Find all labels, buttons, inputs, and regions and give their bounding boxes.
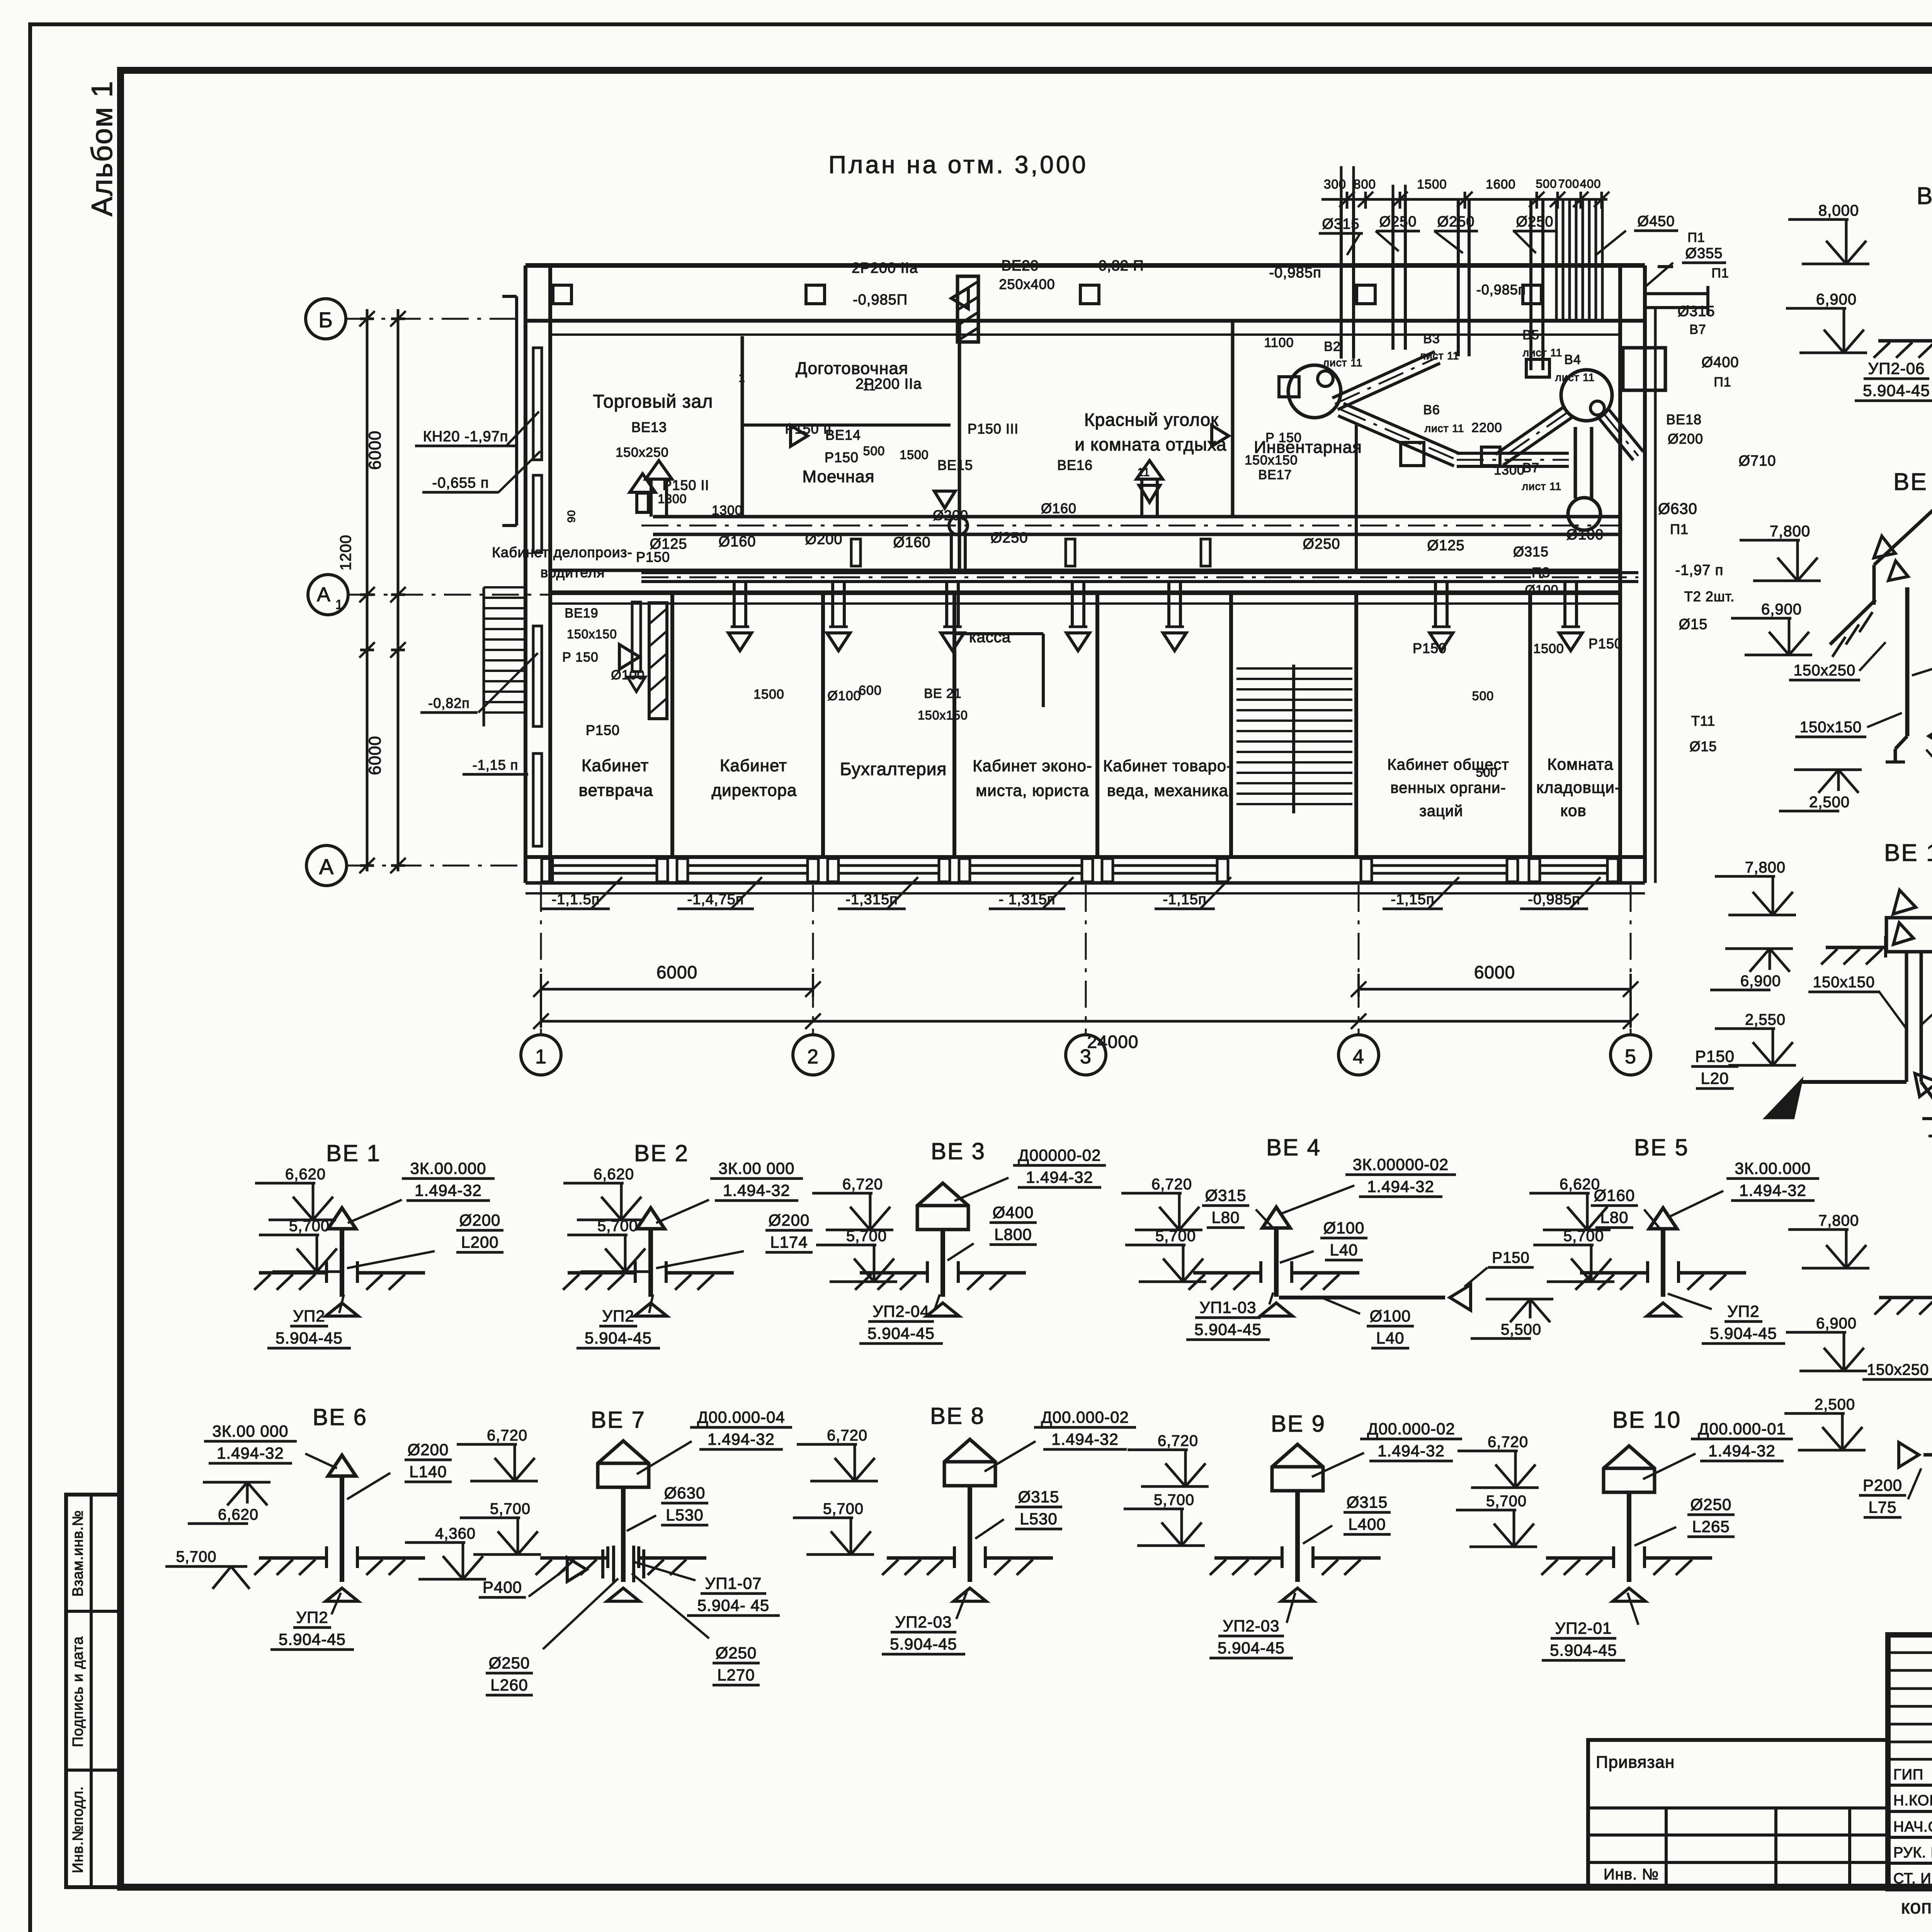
svg-text:-1,15 п: -1,15 п <box>473 757 519 773</box>
svg-text:Ø400: Ø400 <box>1702 354 1739 371</box>
svg-text:1500: 1500 <box>900 448 929 462</box>
svg-text:Р150: Р150 <box>825 449 859 465</box>
svg-text:-1,15п: -1,15п <box>1391 891 1434 908</box>
svg-text:лист 11: лист 11 <box>1523 347 1563 359</box>
album vertical note <box>86 80 119 216</box>
svg-text:1.494-32: 1.494-32 <box>415 1181 482 1199</box>
svg-text:В2: В2 <box>1324 339 1341 354</box>
riser schematic BE13 <box>1731 469 1932 811</box>
svg-text:6,620: 6,620 <box>285 1166 326 1183</box>
svg-text:Ø315: Ø315 <box>1513 544 1549 560</box>
svg-text:1300: 1300 <box>1494 463 1525 478</box>
svg-text:5,700: 5,700 <box>289 1218 330 1235</box>
svg-text:2,550: 2,550 <box>1745 1011 1786 1028</box>
svg-text:УП2-03: УП2-03 <box>1223 1617 1280 1635</box>
svg-text:Взам.инв.№: Взам.инв.№ <box>70 1510 86 1597</box>
svg-text:1.494-32: 1.494-32 <box>707 1430 775 1448</box>
upper room duct symbols <box>630 425 1229 566</box>
svg-text:Кабинет делопроиз-: Кабинет делопроиз- <box>492 544 633 560</box>
svg-text:П1: П1 <box>1687 230 1705 245</box>
building top wall <box>526 265 1645 335</box>
svg-text:В7: В7 <box>1689 322 1706 337</box>
svg-text:-1,1.5п: -1,1.5п <box>552 891 600 908</box>
svg-text:лист 11: лист 11 <box>1425 422 1464 434</box>
svg-text:Подпись и дата: Подпись и дата <box>70 1636 86 1747</box>
svg-text:УП2-04: УП2-04 <box>873 1302 930 1320</box>
svg-text:Моечная: Моечная <box>802 467 874 486</box>
svg-text:П1: П1 <box>1714 375 1731 389</box>
svg-text:6,900: 6,900 <box>1816 1315 1857 1332</box>
svg-text:УП2: УП2 <box>293 1307 325 1325</box>
svg-text:Ø100: Ø100 <box>1566 527 1604 543</box>
svg-text:3К.00000-02: 3К.00000-02 <box>1353 1155 1449 1173</box>
svg-text:ветврача: ветврача <box>579 781 653 800</box>
svg-text:L530: L530 <box>666 1506 703 1524</box>
title block signature rows <box>1893 1763 1932 1889</box>
svg-text:Ø200: Ø200 <box>805 531 843 548</box>
svg-text:Р150: Р150 <box>1492 1249 1529 1266</box>
svg-text:копировал Бабина: копировал Бабина <box>1901 1896 1932 1918</box>
svg-text:А: А <box>317 583 331 606</box>
svg-text:4: 4 <box>1353 1046 1364 1068</box>
svg-text:Ø250: Ø250 <box>716 1644 757 1662</box>
footer notes <box>1604 1866 1932 1918</box>
svg-text:УП2-01: УП2-01 <box>1555 1619 1612 1637</box>
svg-text:5.904-45: 5.904-45 <box>1863 381 1930 400</box>
svg-text:6,720: 6,720 <box>1151 1176 1192 1193</box>
svg-text:5.904-45: 5.904-45 <box>585 1329 652 1347</box>
svg-text:5,700: 5,700 <box>490 1500 531 1517</box>
svg-text:300: 300 <box>1324 177 1346 191</box>
svg-text:Ø160: Ø160 <box>1041 500 1077 516</box>
svg-text:6000: 6000 <box>656 962 697 982</box>
svg-text:директора: директора <box>711 781 797 800</box>
svg-text:L80: L80 <box>1600 1208 1628 1226</box>
fan unit B4 <box>1481 370 1612 466</box>
svg-text:Инв.№подл.: Инв.№подл. <box>70 1786 86 1873</box>
svg-text:6,620: 6,620 <box>594 1166 634 1183</box>
svg-text:касса: касса <box>969 629 1011 646</box>
svg-text:ВЕ 11, ВЕ 12: ВЕ 11, ВЕ 12 <box>1917 183 1932 209</box>
left dimension chain <box>337 309 406 873</box>
riser schematic BE1 <box>254 1140 503 1348</box>
svg-text:Ø250: Ø250 <box>1379 214 1417 230</box>
svg-text:5.904-45: 5.904-45 <box>279 1630 346 1648</box>
svg-text:Ø315: Ø315 <box>1205 1186 1247 1204</box>
svg-text:1.494-32: 1.494-32 <box>1051 1430 1119 1448</box>
building right wall <box>1620 265 1655 883</box>
svg-text:ВЕ 1: ВЕ 1 <box>326 1140 381 1166</box>
svg-text:Кабинет: Кабинет <box>720 756 787 775</box>
svg-text:150х150: 150х150 <box>918 708 968 722</box>
svg-text:6,720: 6,720 <box>487 1427 527 1444</box>
svg-text:ВЕ 5: ВЕ 5 <box>1634 1134 1689 1160</box>
svg-text:5,700: 5,700 <box>597 1218 638 1235</box>
svg-text:Ø15: Ø15 <box>1689 738 1717 754</box>
svg-text:5.904- 45: 5.904- 45 <box>697 1596 769 1614</box>
svg-text:Р150 III: Р150 III <box>968 421 1019 437</box>
svg-text:5,700: 5,700 <box>1155 1228 1196 1245</box>
interior partitions upper rooms <box>742 321 1356 572</box>
svg-text:Р150: Р150 <box>1695 1047 1735 1065</box>
svg-text:лист 11: лист 11 <box>1522 480 1562 492</box>
svg-text:УП2: УП2 <box>296 1608 328 1626</box>
svg-text:1: 1 <box>738 372 745 384</box>
machinery ducts <box>1332 348 1665 530</box>
svg-text:Кабинет эконо-: Кабинет эконо- <box>973 757 1092 775</box>
svg-text:Инв. №: Инв. № <box>1604 1866 1659 1883</box>
svg-text:Д00.000-04: Д00.000-04 <box>697 1408 785 1426</box>
svg-text:5.904-45: 5.904-45 <box>867 1324 935 1342</box>
svg-text:ВЕ 4: ВЕ 4 <box>1266 1134 1321 1160</box>
stairwell <box>1236 665 1352 813</box>
svg-text:L260: L260 <box>490 1676 528 1694</box>
svg-text:Ø400: Ø400 <box>993 1203 1034 1221</box>
axis B <box>306 299 526 339</box>
svg-text:150х250: 150х250 <box>616 445 668 460</box>
svg-text:-0,985п: -0,985п <box>1476 282 1526 298</box>
riser schematic BE4 <box>1121 1134 1456 1348</box>
BE20 wall riser with hatch <box>951 276 978 342</box>
corridor duct run <box>641 573 1638 582</box>
svg-text:Ø315: Ø315 <box>1678 303 1715 320</box>
svg-text:Ø160: Ø160 <box>893 534 931 551</box>
svg-text:Т2 2шт.: Т2 2шт. <box>1684 588 1735 604</box>
svg-text:5,700: 5,700 <box>1154 1492 1194 1509</box>
svg-text:1.494-32: 1.494-32 <box>723 1181 790 1199</box>
svg-text:90: 90 <box>565 510 577 522</box>
left stamp table <box>66 1495 121 1887</box>
duct drops to rooms <box>728 582 1582 651</box>
svg-text:-0,82п: -0,82п <box>428 695 470 711</box>
svg-text:П3: П3 <box>1532 565 1550 580</box>
svg-text:150х150: 150х150 <box>1245 453 1298 468</box>
svg-text:Ø630: Ø630 <box>664 1484 706 1502</box>
svg-text:Ø15: Ø15 <box>1679 616 1708 633</box>
svg-text:6000: 6000 <box>1474 962 1515 982</box>
svg-text:венных органи-: венных органи- <box>1390 779 1506 796</box>
svg-text:Ø100: Ø100 <box>1370 1307 1411 1325</box>
svg-text:5.904-45: 5.904-45 <box>890 1635 957 1653</box>
room labels <box>492 359 1621 820</box>
svg-text:Ø315: Ø315 <box>1347 1493 1388 1511</box>
svg-text:Ø100: Ø100 <box>1323 1219 1365 1237</box>
svg-text:Привязан: Привязан <box>1596 1753 1675 1772</box>
svg-text:Ø200: Ø200 <box>769 1211 810 1229</box>
svg-text:1600: 1600 <box>1486 177 1515 191</box>
svg-text:1: 1 <box>535 1046 547 1068</box>
svg-text:6,900: 6,900 <box>1761 601 1802 618</box>
svg-text:6,620: 6,620 <box>218 1506 259 1523</box>
svg-text:Р 150: Р 150 <box>1265 430 1302 445</box>
svg-text:Ø630: Ø630 <box>1658 500 1697 517</box>
svg-text:Доготовочная: Доготовочная <box>796 359 908 378</box>
bottom wall level labels <box>542 877 1600 909</box>
svg-text:5.904-45: 5.904-45 <box>1194 1320 1262 1338</box>
svg-text:лист 11: лист 11 <box>1555 371 1595 383</box>
svg-text:-0,985п: -0,985п <box>1269 265 1321 281</box>
svg-text:Ø250: Ø250 <box>1516 214 1554 230</box>
svg-text:ВЕ 3: ВЕ 3 <box>931 1138 986 1164</box>
svg-text:5.904-45: 5.904-45 <box>276 1329 343 1347</box>
svg-text:ВЕ 10: ВЕ 10 <box>1612 1407 1681 1433</box>
svg-text:Ø200: Ø200 <box>933 507 968 523</box>
svg-text:Б: Б <box>318 308 333 332</box>
svg-text:Комната: Комната <box>1547 755 1613 773</box>
svg-text:План на отм. 3,000: План на отм. 3,000 <box>828 151 1088 179</box>
svg-text:Ø250: Ø250 <box>1437 214 1475 230</box>
plan title <box>828 151 1088 179</box>
svg-text:3К.00 000: 3К.00 000 <box>719 1159 795 1177</box>
svg-text:4,360: 4,360 <box>435 1525 476 1542</box>
svg-text:5: 5 <box>1625 1046 1636 1068</box>
svg-text:150х250: 150х250 <box>1794 662 1855 679</box>
axis A <box>306 845 526 886</box>
riser schematic BE2 <box>563 1140 813 1348</box>
svg-text:6,900: 6,900 <box>1740 973 1781 990</box>
svg-text:L200: L200 <box>461 1233 498 1251</box>
svg-text:ВЕ 2: ВЕ 2 <box>634 1140 689 1166</box>
attachment table <box>1588 1740 1888 1889</box>
left outside stair <box>484 587 526 726</box>
svg-text:3К.00.000: 3К.00.000 <box>410 1159 486 1177</box>
svg-text:6,720: 6,720 <box>1488 1434 1528 1451</box>
svg-text:800: 800 <box>1354 177 1376 191</box>
riser schematic BE6 <box>165 1548 250 1589</box>
svg-text:СТ. ИНЖ.: СТ. ИНЖ. <box>1893 1871 1932 1887</box>
svg-text:2Р200 IIа: 2Р200 IIа <box>852 260 918 276</box>
svg-text:В4: В4 <box>1564 352 1581 367</box>
svg-text:L40: L40 <box>1376 1329 1404 1347</box>
roof duct stubs above top wall <box>1319 166 1729 370</box>
svg-text:УП1-03: УП1-03 <box>1200 1298 1257 1316</box>
right top elbow duct <box>1645 267 1708 315</box>
svg-text:1300: 1300 <box>658 492 687 506</box>
svg-text:Р200: Р200 <box>1863 1476 1902 1494</box>
svg-text:500: 500 <box>1476 765 1498 779</box>
bottom axis circles <box>521 885 1651 1075</box>
svg-text:и комната отдыха: и комната отдыха <box>1075 434 1226 454</box>
svg-text:-1,97 п: -1,97 п <box>1675 562 1724 578</box>
svg-text:Ø250: Ø250 <box>1690 1495 1732 1514</box>
svg-text:1.494-32: 1.494-32 <box>1026 1168 1093 1186</box>
svg-text:Красный уголок: Красный уголок <box>1084 410 1219 430</box>
svg-text:11: 11 <box>863 380 876 393</box>
svg-text:11: 11 <box>1137 466 1150 479</box>
svg-text:5.904-45: 5.904-45 <box>1550 1641 1617 1659</box>
svg-text:1500: 1500 <box>753 687 784 702</box>
svg-text:L174: L174 <box>770 1233 808 1251</box>
svg-text:водителя: водителя <box>541 565 605 580</box>
building left wall <box>526 265 550 883</box>
svg-text:1100: 1100 <box>1264 335 1294 350</box>
svg-text:600: 600 <box>859 683 882 698</box>
svg-text:L40: L40 <box>1330 1241 1358 1259</box>
svg-text:УП2-03: УП2-03 <box>895 1613 952 1631</box>
svg-text:Д00.000-02: Д00.000-02 <box>1367 1420 1455 1438</box>
svg-text:Альбом 1: Альбом 1 <box>86 80 119 216</box>
svg-text:Ø200: Ø200 <box>408 1440 449 1459</box>
svg-text:2,500: 2,500 <box>1809 794 1850 811</box>
svg-text:А: А <box>319 854 334 879</box>
title block frame <box>1888 1635 1932 1889</box>
svg-text:Д00.000-02: Д00.000-02 <box>1041 1408 1129 1426</box>
riser schematic BE14 <box>1691 840 1932 1158</box>
svg-text:2: 2 <box>807 1046 819 1068</box>
svg-text:7,800: 7,800 <box>1745 859 1786 876</box>
svg-text:L80: L80 <box>1211 1208 1240 1226</box>
svg-text:лист 11: лист 11 <box>1323 357 1363 369</box>
riser schematic BE9 <box>1124 1411 1462 1658</box>
svg-text:Ø315: Ø315 <box>1018 1488 1060 1506</box>
svg-text:Ø200: Ø200 <box>459 1211 501 1229</box>
svg-text:6,720: 6,720 <box>1158 1432 1198 1449</box>
svg-text:Ø100: Ø100 <box>1525 583 1558 597</box>
svg-text:L270: L270 <box>717 1666 755 1684</box>
svg-text:Р150 II: Р150 II <box>662 477 709 493</box>
svg-text:1.494-32: 1.494-32 <box>1739 1181 1806 1199</box>
svg-text:5,700: 5,700 <box>846 1228 887 1245</box>
svg-text:-0,82 П: -0,82 П <box>1093 258 1144 274</box>
svg-text:ВЕ13: ВЕ13 <box>631 419 667 435</box>
svg-text:7,800: 7,800 <box>1818 1212 1859 1229</box>
svg-text:8,000: 8,000 <box>1818 202 1859 219</box>
svg-text:6000: 6000 <box>366 736 384 775</box>
svg-text:В6: В6 <box>1423 403 1440 417</box>
svg-text:кладовщи-: кладовщи- <box>1536 778 1621 796</box>
svg-text:5.904-45: 5.904-45 <box>1218 1639 1285 1657</box>
svg-text:-0,985П: -0,985П <box>853 292 908 308</box>
svg-text:1.494-32: 1.494-32 <box>1378 1442 1445 1460</box>
svg-text:В5: В5 <box>1522 328 1539 342</box>
svg-text:1500: 1500 <box>1533 641 1564 656</box>
riser schematic BE15 <box>1784 1197 1932 1517</box>
upper duct run <box>641 461 1619 535</box>
svg-text:Д00.000-01: Д00.000-01 <box>1698 1420 1786 1438</box>
svg-text:Н.КОНТР.: Н.КОНТР. <box>1893 1793 1932 1809</box>
svg-text:УП2: УП2 <box>1727 1302 1759 1320</box>
svg-text:Ø100: Ø100 <box>827 689 861 703</box>
svg-text:В3: В3 <box>1423 332 1440 346</box>
svg-text:150х150: 150х150 <box>1800 719 1862 736</box>
svg-text:П1: П1 <box>1670 521 1689 537</box>
svg-text:ВЕ20: ВЕ20 <box>1002 258 1039 274</box>
svg-text:150х150: 150х150 <box>567 627 617 641</box>
riser schematic BE11 BE12 <box>1786 183 1932 427</box>
svg-text:Ø355: Ø355 <box>1685 245 1723 262</box>
svg-text:L530: L530 <box>1020 1510 1057 1528</box>
bottom dimension lines <box>533 962 1638 1052</box>
svg-text:5,700: 5,700 <box>1563 1228 1604 1245</box>
svg-text:Кабинет: Кабинет <box>582 756 649 775</box>
svg-text:3К.00 000: 3К.00 000 <box>213 1422 289 1440</box>
svg-text:6,720: 6,720 <box>827 1427 867 1444</box>
svg-text:Р400: Р400 <box>483 1578 522 1596</box>
svg-text:ВЕ 21: ВЕ 21 <box>924 686 962 701</box>
svg-text:Т11: Т11 <box>1691 713 1715 729</box>
svg-text:6,900: 6,900 <box>1816 291 1857 308</box>
svg-text:заций: заций <box>1419 803 1463 820</box>
svg-text:ков: ков <box>1560 801 1587 820</box>
svg-text:500: 500 <box>1472 689 1494 703</box>
svg-text:миста, юриста: миста, юриста <box>976 781 1089 799</box>
svg-text:L75: L75 <box>1868 1498 1896 1516</box>
svg-text:РУК. ГР.: РУК. ГР. <box>1893 1845 1932 1861</box>
left wall annex detail <box>502 296 517 526</box>
plan annotations <box>562 177 1776 779</box>
svg-text:5.904-45: 5.904-45 <box>1710 1324 1777 1342</box>
svg-text:400: 400 <box>1580 177 1601 190</box>
svg-text:Ø710: Ø710 <box>1739 453 1776 469</box>
svg-text:1.494-32: 1.494-32 <box>1367 1177 1434 1196</box>
svg-text:Ø315: Ø315 <box>1322 216 1360 232</box>
svg-text:250х400: 250х400 <box>999 276 1055 292</box>
svg-text:1.494-32: 1.494-32 <box>1708 1442 1776 1460</box>
svg-text:L20: L20 <box>1701 1069 1729 1087</box>
svg-text:веда, механика: веда, механика <box>1107 781 1228 799</box>
svg-text:L265: L265 <box>1692 1517 1730 1536</box>
svg-text:500: 500 <box>1536 177 1557 190</box>
svg-text:ВЕ17: ВЕ17 <box>1258 468 1292 482</box>
axis A1 <box>308 575 550 615</box>
svg-text:ГИП: ГИП <box>1893 1767 1923 1783</box>
svg-text:ВЕ 14: ВЕ 14 <box>1884 840 1932 866</box>
svg-text:7,800: 7,800 <box>1770 523 1810 540</box>
svg-text:3К.00.000: 3К.00.000 <box>1735 1159 1811 1177</box>
svg-text:Ø125: Ø125 <box>1427 537 1465 554</box>
svg-text:Р150: Р150 <box>1413 640 1447 656</box>
interior partitions lower rooms <box>672 593 1530 857</box>
svg-text:Р150: Р150 <box>636 549 670 565</box>
svg-text:2200: 2200 <box>1471 420 1502 435</box>
svg-text:В7: В7 <box>1522 461 1539 475</box>
riser schematic BE8 <box>793 1403 1136 1654</box>
svg-text:ВЕ15: ВЕ15 <box>937 457 973 473</box>
svg-text:6000: 6000 <box>366 430 384 470</box>
svg-text:ВЕ19: ВЕ19 <box>565 606 598 621</box>
svg-text:5,700: 5,700 <box>1486 1493 1527 1510</box>
svg-text:ВЕ18: ВЕ18 <box>1666 412 1702 427</box>
svg-text:УП1-07: УП1-07 <box>705 1574 762 1592</box>
svg-text:Торговый зал: Торговый зал <box>593 391 713 412</box>
fan unit B2 <box>1279 365 1341 418</box>
svg-text:КН20 -1,97п: КН20 -1,97п <box>423 429 509 445</box>
svg-text:П1: П1 <box>1711 266 1729 281</box>
svg-text:1200: 1200 <box>337 535 354 571</box>
svg-text:Ø160: Ø160 <box>1594 1186 1635 1204</box>
svg-text:УП2: УП2 <box>602 1307 634 1325</box>
svg-text:1300: 1300 <box>712 503 743 518</box>
svg-text:L140: L140 <box>409 1463 447 1481</box>
svg-text:Ø200: Ø200 <box>1668 431 1703 447</box>
svg-text:Р150: Р150 <box>586 722 620 738</box>
riser schematic BE7 <box>405 1407 792 1695</box>
svg-text:ВЕ 9: ВЕ 9 <box>1271 1411 1326 1437</box>
svg-text:ВЕ 7: ВЕ 7 <box>591 1407 646 1433</box>
svg-text:ВЕ16: ВЕ16 <box>1057 457 1093 473</box>
svg-text:НАЧ.ОТД.: НАЧ.ОТД. <box>1893 1819 1932 1835</box>
svg-text:Р150: Р150 <box>1588 636 1622 651</box>
svg-text:Ø250: Ø250 <box>991 530 1028 546</box>
svg-text:5,700: 5,700 <box>823 1500 864 1517</box>
svg-text:Кабинет товаро-: Кабинет товаро- <box>1103 757 1232 775</box>
svg-text:Ø250: Ø250 <box>489 1654 530 1672</box>
building bottom wall and windows <box>526 857 1645 893</box>
svg-text:ВЕ14: ВЕ14 <box>825 427 861 443</box>
corridor walls <box>550 570 1620 604</box>
left wall level labels <box>415 412 540 774</box>
duct vertical join <box>951 534 965 573</box>
